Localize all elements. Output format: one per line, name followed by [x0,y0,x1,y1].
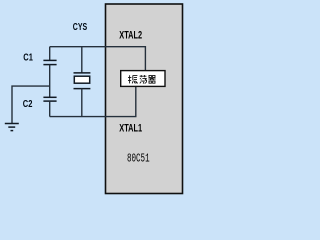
glyph 器 [149,75,155,77]
label 振荡器 (oscillator, drawn glyphs) [128,75,156,84]
glyph 振 [128,75,131,83]
wire top net XTAL2 (horizontal from C1 branch through crystal into chip, then down to oscillator block) [50,47,146,71]
glyph 荡 [140,75,147,77]
svg-text:80C51: 80C51 [127,152,150,166]
svg-text:XTAL2: XTAL2 [119,30,142,42]
svg-text:CYS: CYS [73,21,87,33]
pin label XTAL1 [119,123,142,135]
svg-text:C1: C1 [23,53,33,64]
wire left branch middle (C1 to C2, ground tap) [49,65,51,98]
ground [5,124,19,131]
crystal CYS (quartz between top and bottom nets) [74,47,91,117]
wire bottom net XTAL1 (horizontal into chip, then up to oscillator block) [50,86,136,116]
label 80C51 [127,152,150,166]
wire left branch top (node XTAL2 to C1) [49,47,51,61]
label CYS [73,21,87,33]
capacitor C2 [43,97,56,101]
wire ground tap (junction between C1 and C2 going left) [12,86,50,123]
chip 80C51 (IC outline) [106,4,183,194]
wire left branch bottom (C2 to bottom wire) [49,101,51,117]
capacitor C1 [43,60,56,64]
label C2 [23,99,33,110]
svg-text:XTAL1: XTAL1 [119,123,142,135]
svg-text:C2: C2 [23,99,33,110]
oscillator block (振荡器 box) [121,71,165,87]
pin label XTAL2 [119,30,142,42]
label C1 [23,53,33,64]
